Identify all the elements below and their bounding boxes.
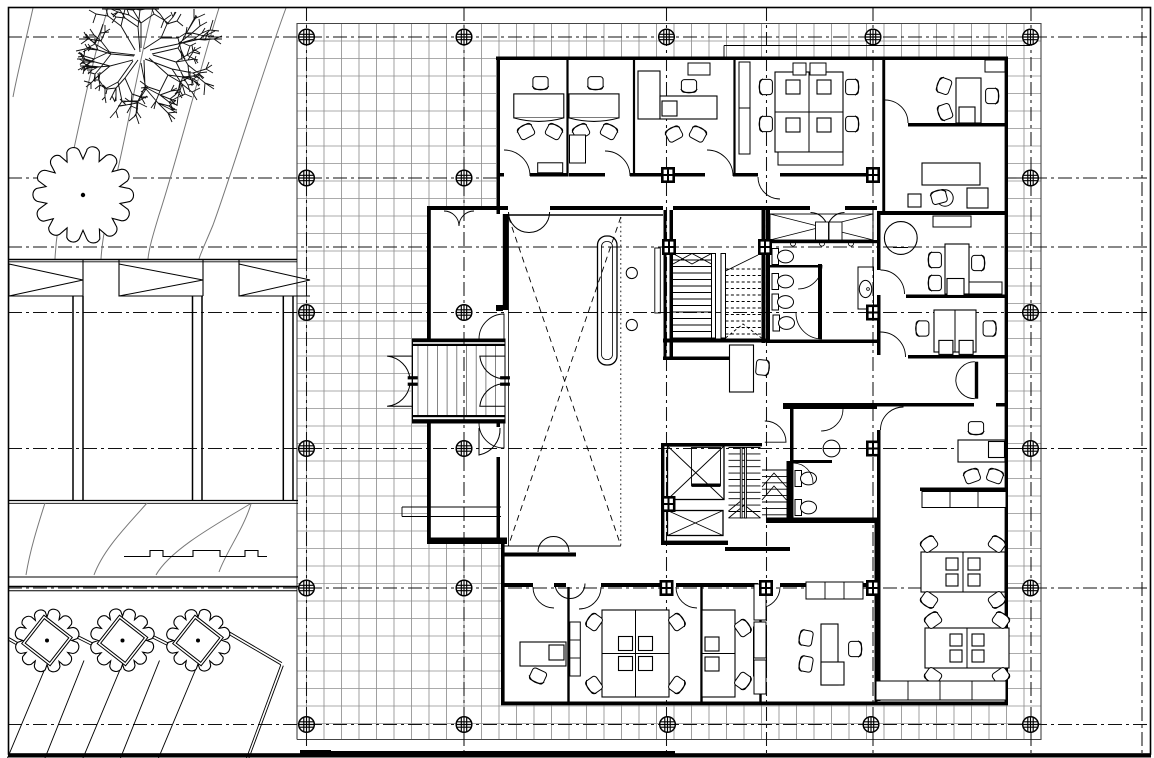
parapet line top right: [724, 45, 1030, 47]
wing top doors: [444, 211, 474, 226]
bottom cabinets between A2/B2: [570, 622, 581, 676]
top corridor doors: [504, 150, 530, 176]
elevator 2: [668, 511, 724, 536]
elevator 1: [668, 446, 725, 500]
tree (deciduous): [76, 9, 222, 124]
stair upper: [673, 254, 762, 339]
room F (r2): [922, 163, 980, 185]
small wc room circles: [790, 241, 795, 246]
room I (r5): [958, 440, 1005, 462]
bottom rooms door arcs: [533, 587, 554, 608]
room A desks: [514, 94, 564, 122]
room B desks: [569, 94, 619, 122]
side stair chevrons: [762, 470, 787, 515]
entry lobby X: [770, 214, 873, 240]
stair lower: [729, 448, 761, 519]
desk mid: [730, 345, 754, 392]
room E desks: [956, 78, 981, 123]
bottom room A2: [520, 642, 566, 666]
parking band: [8, 259, 297, 261]
toilets lower: [795, 471, 817, 487]
door near lower core: [765, 421, 786, 442]
atrium left edge: [508, 217, 510, 546]
reception desk: [598, 236, 618, 365]
doors at wall y583: [555, 584, 585, 599]
elevator lobby slot: [655, 248, 661, 313]
atrium dashed opening: [509, 217, 621, 546]
vanity: [858, 267, 874, 309]
canopy left: [402, 506, 501, 508]
steps symbol: [124, 551, 267, 557]
paving grid: [297, 24, 1041, 740]
bottom room C2 half pod: [702, 610, 735, 697]
bottom room B2 pod: [602, 610, 669, 697]
corridor double door right: [975, 362, 978, 399]
toilets upper: [772, 249, 794, 265]
lobby doors near stairs: [811, 213, 845, 230]
bottom stalls: [8, 669, 46, 758]
parking stalls: [72, 296, 74, 501]
room G (r3) meeting: [933, 216, 971, 227]
atrium entry double doors: [509, 212, 530, 233]
bottom room D2: [806, 582, 863, 599]
room D pod: [775, 72, 843, 152]
big circle room: [884, 222, 917, 255]
wing doors to vestibule: [479, 314, 504, 339]
open office sideboard: [922, 492, 1006, 508]
bush upper: [33, 147, 134, 243]
open office pods: [921, 552, 1005, 592]
road contours: [26, 503, 251, 575]
contour lines upper: [13, 8, 286, 259]
square column markers: [661, 167, 675, 183]
vestibule: [413, 339, 506, 423]
building walls: [427, 57, 1008, 706]
plaza edges: [297, 24, 1041, 740]
room C desks: [638, 71, 660, 119]
structural columns: [299, 29, 315, 45]
vestibule doors: [387, 356, 412, 379]
door below vestibule: [479, 428, 500, 455]
room H (r4): [934, 310, 976, 352]
doors at wall y552: [538, 537, 569, 553]
